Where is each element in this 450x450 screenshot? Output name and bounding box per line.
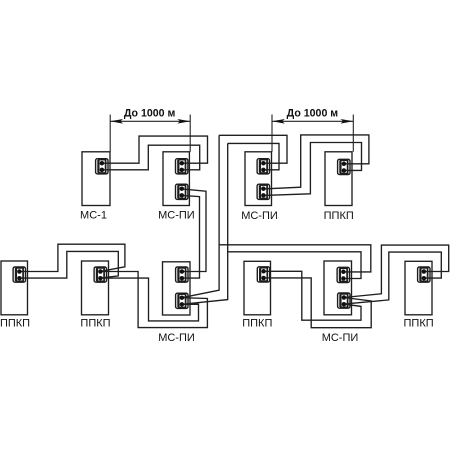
svg-text:До 1000 м: До 1000 м (287, 108, 339, 120)
svg-text:МС-ПИ: МС-ПИ (241, 210, 278, 222)
svg-text:МС-ПИ: МС-ПИ (158, 332, 195, 344)
svg-text:ППКП: ППКП (0, 317, 30, 329)
svg-text:ППКП: ППКП (404, 317, 434, 329)
svg-text:До 1000 м: До 1000 м (124, 108, 176, 120)
svg-text:МС-ПИ: МС-ПИ (158, 210, 195, 222)
svg-text:МС-ПИ: МС-ПИ (322, 332, 359, 344)
svg-text:ППКП: ППКП (242, 317, 272, 329)
svg-text:ППКП: ППКП (80, 317, 110, 329)
svg-text:МС-1: МС-1 (80, 210, 107, 222)
svg-text:ППКП: ППКП (324, 210, 354, 222)
